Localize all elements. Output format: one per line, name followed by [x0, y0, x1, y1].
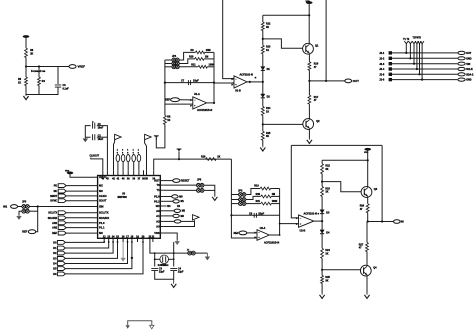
svg-text:U1-B: U1-B	[235, 90, 241, 93]
wire to Q1 base	[263, 39, 303, 48]
wire SMRT to IC	[66, 195, 94, 197]
wire stage1 left vertical	[164, 60, 166, 104]
wire REF to U1-A minus	[179, 99, 192, 101]
junction TP3	[413, 63, 415, 65]
transistor Q4	[360, 265, 371, 276]
pad J2-3	[389, 62, 392, 65]
junction xtal left	[154, 258, 156, 260]
svg-text:MSP430: MSP430	[118, 196, 128, 199]
terminal REF stage2	[239, 231, 247, 235]
svg-text:SMRT: SMRT	[50, 195, 58, 198]
svg-text:1K: 1K	[266, 110, 269, 113]
net flag A3	[193, 215, 200, 220]
pin stub right 9	[160, 220, 163, 222]
jumper JP5	[197, 183, 204, 187]
diode D1	[261, 67, 265, 71]
wire D2 to pin	[65, 242, 113, 253]
junction D3 pin	[117, 241, 119, 243]
resistor R6	[25, 48, 28, 57]
terminal M0	[172, 195, 178, 198]
wire D1 to out node	[262, 71, 264, 94]
wire D4 to R24	[321, 234, 323, 249]
resistor pullup R32	[126, 155, 130, 162]
wire R22 to R23	[321, 174, 323, 187]
wire VDD to R6	[25, 38, 27, 49]
wire NC to IC	[66, 190, 94, 192]
wire JP6 right	[204, 189, 215, 191]
svg-text:10nF: 10nF	[98, 138, 104, 141]
pin stub right 10	[160, 226, 163, 228]
wire R15 to gnd	[262, 140, 264, 146]
pin stub right 1	[160, 180, 163, 182]
wire xtal rail from pin	[150, 242, 188, 253]
junction U2-B out	[321, 220, 323, 222]
terminal AN2	[58, 226, 66, 230]
wire pullup R32 bottom	[127, 162, 129, 171]
wire D5 to pin	[65, 242, 131, 269]
net flag A2	[145, 134, 152, 139]
wire testpoint TP3 stem	[413, 44, 415, 64]
svg-text:XIN: XIN	[99, 205, 104, 209]
pin stub top 6	[127, 170, 129, 175]
resistor R5	[25, 77, 28, 86]
resistor R22	[321, 164, 324, 174]
svg-text:XOUT: XOUT	[99, 199, 107, 203]
terminal M2	[174, 209, 180, 212]
svg-text:JP5: JP5	[197, 179, 202, 182]
wire R23 to D3	[321, 196, 323, 209]
capacitor C3	[151, 268, 158, 270]
testpoint TP1 flag	[404, 41, 408, 43]
wire T1 to stage1 resistor	[156, 124, 165, 148]
capacitor C4	[170, 268, 177, 270]
terminal M3	[173, 214, 179, 217]
wire row9 to flag	[181, 220, 195, 222]
transistor Q2	[303, 119, 314, 130]
wire row8 right	[163, 215, 173, 217]
power flag T1 stage1	[154, 136, 159, 140]
power VDD stage2	[364, 148, 371, 151]
diode D4	[320, 230, 324, 234]
resistor pullup R31	[121, 155, 125, 162]
junction D0 pin	[103, 241, 105, 243]
wire R25 to gnd	[321, 283, 323, 293]
wire node to R4	[38, 67, 40, 78]
wire pullup R34 top	[138, 153, 140, 156]
junction TP6	[421, 79, 423, 81]
svg-text:AN2: AN2	[52, 227, 58, 230]
svg-text:J2-1: J2-1	[379, 52, 385, 55]
diode D3	[320, 210, 324, 214]
svg-text:SYNC: SYNC	[50, 200, 57, 203]
junction D5 pin	[131, 241, 133, 243]
junction TP4	[416, 68, 418, 70]
pin stub left 7	[95, 212, 98, 214]
svg-text:P2.0: P2.0	[154, 195, 160, 199]
wire jumper row2	[163, 189, 196, 191]
pin stub left 9	[95, 222, 98, 224]
resistor R9	[195, 51, 204, 54]
pin stub top 10	[146, 170, 148, 175]
junction Q2 base node	[262, 123, 264, 125]
wire R8 top to stage1	[164, 104, 166, 115]
svg-text:ACF2101B-N: ACF2101B-N	[264, 241, 279, 244]
resistor R25	[321, 275, 324, 283]
wire JP7 right	[195, 252, 207, 254]
wire R19 right	[271, 188, 280, 190]
wire caps right rail to pin	[97, 126, 108, 171]
svg-text:CLKOUT: CLKOUT	[90, 155, 100, 157]
resistor R8	[163, 115, 166, 124]
pin stub right 8	[160, 215, 163, 217]
wire testpoint TP4 stem	[416, 44, 418, 69]
terminal AN1	[58, 221, 66, 225]
svg-text:JP2: JP2	[238, 190, 243, 193]
wire Q4 to gnd	[366, 276, 368, 294]
wire SCL/TX to IC	[66, 212, 94, 214]
wire xtal left branch	[154, 253, 156, 266]
pin stub left 8	[95, 217, 98, 219]
svg-text:A3: A3	[156, 225, 160, 229]
pin stub right 3	[160, 189, 163, 191]
wire row2 riser stage2	[246, 196, 261, 199]
pin stub left 10	[95, 227, 98, 229]
testpoint TP2 flag	[409, 41, 413, 43]
svg-text:J2-6: J2-6	[379, 79, 385, 82]
pin stub left 4	[95, 195, 98, 197]
terminal GND row2	[458, 57, 465, 60]
junction D6 pin	[142, 241, 144, 243]
svg-text:PD: PD	[54, 185, 58, 188]
terminal D6	[57, 272, 65, 276]
resistor R19	[260, 187, 271, 190]
svg-text:3K: 3K	[266, 26, 269, 29]
terminal OUT stage1	[345, 79, 352, 83]
resistor R17	[308, 95, 311, 104]
junction out node q	[308, 80, 310, 82]
ground xtal	[171, 279, 176, 287]
pin stub bottom 9	[142, 238, 144, 242]
svg-text:JP3: JP3	[22, 201, 27, 204]
ground caps	[83, 138, 88, 142]
pin stub bottom 10	[149, 238, 151, 242]
resistor R16	[308, 62, 311, 71]
wire caps bottom rail	[155, 271, 174, 280]
junction D2 pin	[112, 241, 114, 243]
terminal D5	[57, 267, 65, 271]
wire D1 to pin	[65, 242, 108, 248]
wire R21 right	[271, 203, 279, 205]
wire R12 to R13	[262, 31, 264, 46]
pin stub right 4	[160, 196, 163, 198]
ground spare pin	[121, 242, 126, 261]
svg-text:0.1uF: 0.1uF	[63, 88, 70, 91]
terminal D4	[57, 262, 65, 266]
svg-text:P2.1: P2.1	[154, 199, 160, 203]
wire chain1 top rail	[263, 14, 309, 16]
terminal SCL/TX	[58, 211, 66, 215]
pin stub top 4	[117, 170, 119, 175]
pin stub bottom 5	[122, 238, 124, 242]
svg-text:R18: R18	[201, 156, 206, 159]
pad J2-4	[389, 67, 392, 70]
wire stage2 right vertical	[279, 189, 281, 236]
testpoint TP6 flag	[420, 41, 424, 43]
svg-text:REF: REF	[22, 231, 27, 234]
wire JP2-3 left	[231, 203, 238, 205]
terminal D3	[57, 257, 65, 261]
svg-text:SCLK: SCLK	[466, 68, 473, 71]
wire row2 riser to R10	[179, 59, 194, 64]
resistor R15	[261, 131, 264, 140]
wire pullup R30 top	[117, 153, 119, 156]
junction U1-A out	[213, 102, 215, 104]
wire R6 to node VREF	[25, 58, 27, 78]
pin stub top 2	[106, 170, 108, 175]
wire chain1 top to R12	[262, 15, 264, 22]
terminal VREF	[69, 65, 76, 69]
wire U2-B out	[314, 220, 322, 222]
terminal SMRT	[58, 194, 66, 198]
svg-text:3K: 3K	[325, 168, 328, 171]
pin stub left 5	[95, 200, 98, 202]
op-amp U1-A	[190, 97, 206, 109]
pad J2-2	[389, 57, 392, 60]
svg-text:VDD: VDD	[65, 171, 70, 173]
junction TP2	[409, 57, 411, 59]
wire D3 to pin	[65, 242, 117, 258]
wire testpoint TP2 stem	[409, 44, 411, 59]
junction cap row left	[164, 82, 166, 84]
capacitor C6	[55, 85, 61, 87]
wire VDD IC to pin	[70, 174, 95, 177]
wire xtal right branch	[173, 242, 175, 267]
resistor R10	[195, 58, 204, 61]
wire row7 right	[163, 210, 174, 212]
svg-text:1K: 1K	[167, 119, 170, 122]
wire IC pin to line2	[154, 159, 232, 170]
resistor R13	[261, 45, 264, 54]
svg-text:NC: NC	[99, 184, 103, 188]
terminal OUT stage2	[394, 220, 401, 224]
op-amp U1-B	[231, 76, 247, 88]
pin dot U1-B in-	[232, 82, 234, 84]
terminal M1	[173, 200, 179, 203]
svg-text:ACF2101B-N: ACF2101B-N	[197, 109, 212, 112]
junction chain1 mid	[262, 81, 264, 83]
wire R16 to out node	[308, 70, 310, 81]
ground divider	[23, 95, 28, 100]
svg-text:NC: NC	[99, 189, 103, 193]
svg-text:100K: 100K	[272, 200, 278, 203]
junction Q3 base node	[321, 181, 323, 183]
svg-text:AN1: AN1	[52, 222, 58, 225]
svg-text:SDA-2: SDA-2	[466, 73, 474, 76]
resistor R24	[321, 248, 324, 258]
testpoint TP3 flag	[412, 41, 416, 43]
wire PD to IC	[66, 185, 94, 187]
wire JP1-2 left	[165, 63, 172, 65]
wire R24 to R25	[321, 258, 323, 275]
ground Q4	[364, 294, 369, 299]
junction xtal right	[173, 258, 175, 260]
pin stub bottom 1	[103, 238, 105, 242]
svg-text:R21: R21	[256, 200, 261, 203]
ground JP7	[205, 253, 210, 260]
svg-text:IN: IN	[401, 220, 404, 224]
wire out node stage1	[309, 80, 344, 82]
wire AN1 to IC	[66, 222, 94, 224]
terminal OUT row1	[458, 51, 465, 54]
svg-text:OUT: OUT	[353, 79, 360, 83]
svg-text:15pF: 15pF	[258, 212, 264, 215]
wire node to C6	[57, 67, 59, 85]
pin dot U1-B in+	[232, 78, 234, 80]
pin stub bottom 11	[152, 238, 154, 242]
testpoint TP4 flag	[415, 41, 419, 43]
wire testpoint TP5 stem	[419, 44, 421, 75]
terminal SDA-2 row5	[458, 73, 465, 76]
diode D2	[261, 94, 265, 98]
capacitor C7	[188, 80, 190, 85]
wire R11 to right vertical	[207, 66, 214, 68]
pin stub right 6	[160, 205, 163, 207]
terminal D0	[57, 241, 65, 245]
wire row10 to flag	[163, 220, 194, 226]
svg-text:22pF: 22pF	[178, 271, 184, 274]
testpoint flag TP7	[177, 149, 182, 153]
svg-text:REF: REF	[52, 232, 57, 235]
wire top net vertical left	[223, 0, 234, 79]
svg-text:RESET: RESET	[181, 179, 190, 183]
wire feedback2 right vertical	[381, 145, 383, 221]
svg-text:T1 T2: T1 T2	[403, 38, 410, 41]
wire R4 bottom	[38, 86, 40, 95]
svg-text:GND: GND	[466, 57, 472, 60]
svg-text:2K: 2K	[30, 53, 33, 56]
svg-text:10nF: 10nF	[98, 126, 104, 129]
wire bottom rail divider	[26, 86, 58, 95]
pin stub left 2	[95, 185, 98, 187]
wire IN to JP3	[18, 206, 22, 208]
svg-text:VREF: VREF	[78, 65, 86, 69]
svg-text:U2-B: U2-B	[300, 229, 306, 232]
junction chain2 vdd	[367, 159, 369, 161]
junction spare pin	[131, 257, 133, 259]
jumper JP2 pin pair 1	[239, 193, 246, 197]
pin stub left 6	[95, 206, 98, 208]
pin stub left 3	[95, 190, 98, 192]
svg-text:R10: R10	[189, 55, 194, 58]
svg-text:SCL/TX: SCL/TX	[48, 212, 57, 215]
svg-text:P1.1: P1.1	[99, 226, 105, 230]
jumper JP1 pin pair 2	[172, 62, 179, 66]
junction minus net	[213, 82, 215, 84]
wire J2-4 row	[392, 68, 457, 70]
svg-text:VSS: VSS	[154, 231, 160, 235]
pin stub bottom 7	[131, 238, 133, 242]
wire VDD2 to Q3	[367, 150, 369, 186]
svg-text:J2-5: J2-5	[379, 73, 385, 76]
svg-text:R11: R11	[191, 63, 196, 66]
wire chain2 top	[322, 159, 368, 161]
wire Q1 emitter	[308, 53, 310, 62]
svg-text:VDD: VDD	[306, 1, 311, 3]
junction node VREF	[25, 65, 27, 67]
svg-text:3K: 3K	[325, 279, 328, 282]
junction cap row right	[213, 82, 215, 84]
wire feedback2 left vertical	[291, 145, 298, 218]
terminal D1	[57, 246, 65, 250]
svg-text:U2-A: U2-A	[260, 227, 266, 230]
legend open arrow	[150, 325, 154, 329]
junction feedback out	[325, 80, 327, 82]
svg-text:SDA/RX: SDA/RX	[99, 216, 109, 220]
wire U1-A output	[207, 102, 214, 104]
wire row3 stage2	[246, 203, 261, 205]
junction R4 top	[38, 65, 40, 67]
terminal SYNC	[58, 199, 66, 203]
pin stub right 5	[160, 200, 163, 202]
svg-text:1M: 1M	[205, 55, 208, 58]
terminal M4	[174, 220, 181, 223]
svg-text:15pF: 15pF	[193, 80, 199, 83]
wire D4 to pin	[65, 242, 127, 264]
pad J2-6	[389, 78, 392, 81]
resistor R26	[366, 204, 369, 213]
op-amp U2-B	[296, 215, 314, 227]
wire RST row	[163, 180, 172, 182]
junction out2 fb	[381, 220, 383, 222]
svg-text:SCL/TX: SCL/TX	[99, 211, 109, 215]
junction D4 pin	[127, 241, 129, 243]
wire caps left rail	[85, 126, 90, 138]
wire REF to IC	[66, 232, 94, 234]
svg-text:IN1: IN1	[3, 205, 8, 208]
svg-text:REF: REF	[234, 232, 239, 235]
wire feedback vertical right	[325, 0, 327, 81]
svg-text:22pF: 22pF	[159, 271, 165, 274]
wire pullup R31 bottom	[122, 162, 124, 171]
svg-text:Forward res: Forward res	[31, 70, 46, 73]
jumper JP3	[22, 205, 29, 209]
wire to Q4 base	[322, 269, 360, 271]
resistor pullup R30	[116, 155, 120, 162]
wire JP2-2 left	[231, 199, 238, 201]
pin stub bottom 2	[108, 238, 110, 242]
svg-text:Q3: Q3	[374, 188, 378, 191]
terminal REF3	[28, 230, 35, 234]
wire JP4 left down	[19, 211, 22, 215]
jumper JP1 pin pair 3	[172, 65, 179, 69]
svg-text:1K: 1K	[325, 253, 328, 256]
svg-text:1K: 1K	[217, 156, 220, 159]
pin stub top 1	[102, 170, 104, 175]
svg-text:REF: REF	[165, 99, 170, 102]
wire row1 riser stage2	[246, 189, 260, 195]
pin stub bottom 4	[117, 238, 119, 242]
resistor R27	[366, 243, 369, 252]
jumper JP4	[22, 209, 29, 213]
power VDD top-left	[23, 35, 30, 38]
wire row11 to gnd	[163, 233, 177, 241]
resistor R18	[205, 158, 216, 161]
wire branch to REF3	[36, 207, 38, 232]
wire stage1 to U1-B minus	[214, 82, 234, 84]
resistor R20	[261, 195, 272, 198]
IC U3 body	[98, 176, 161, 239]
wire caps right mid	[97, 136, 108, 138]
